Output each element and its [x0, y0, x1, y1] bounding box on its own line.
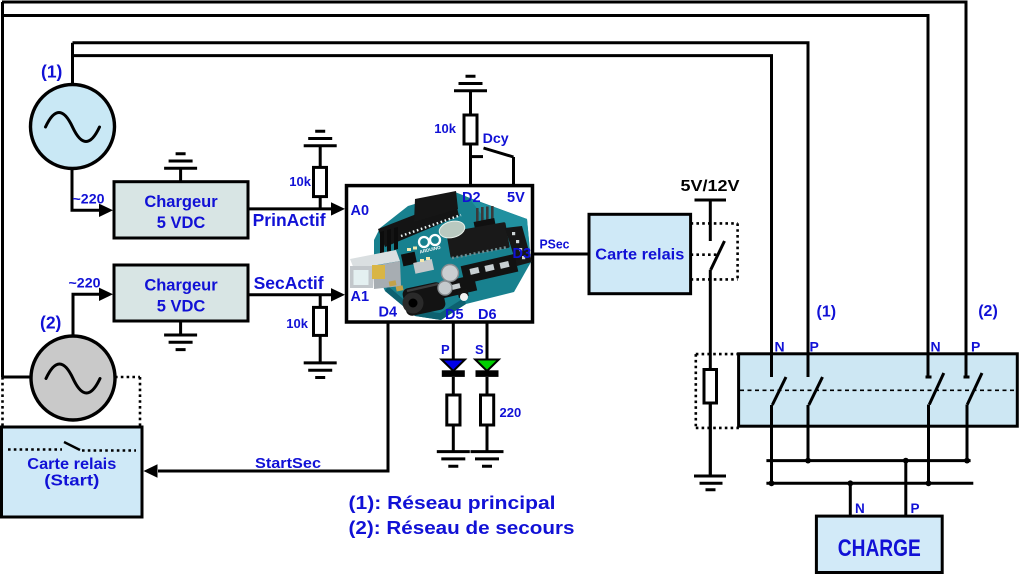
svg-text:(2): Réseau de secours: (2): Réseau de secours [349, 517, 575, 538]
svg-text:~220: ~220 [73, 191, 105, 207]
svg-text:(1): (1) [817, 304, 837, 321]
svg-text:10k: 10k [434, 121, 456, 136]
svg-text:P: P [971, 339, 980, 355]
svg-text:CHARGE: CHARGE [838, 535, 921, 562]
svg-text:Dcy: Dcy [483, 131, 510, 146]
svg-text:(2): (2) [40, 313, 61, 333]
svg-text:(1): (1) [41, 62, 62, 82]
svg-text:(Start): (Start) [44, 473, 99, 490]
svg-text:Chargeur: Chargeur [144, 193, 218, 211]
svg-text:D5: D5 [445, 307, 464, 323]
svg-text:P: P [810, 339, 819, 355]
svg-text:P: P [441, 342, 450, 357]
svg-text:Chargeur: Chargeur [144, 277, 218, 295]
svg-text:N: N [931, 339, 941, 355]
svg-text:A1: A1 [351, 289, 370, 305]
svg-text:220: 220 [500, 405, 522, 420]
svg-text:P: P [911, 501, 920, 516]
svg-text:5V: 5V [507, 190, 525, 206]
svg-text:(1): Réseau principal: (1): Réseau principal [349, 492, 556, 513]
svg-text:D6: D6 [478, 307, 497, 323]
svg-text:N: N [855, 501, 865, 516]
svg-text:D2: D2 [462, 190, 481, 206]
svg-text:PSec: PSec [540, 238, 570, 252]
svg-text:D4: D4 [379, 305, 398, 321]
svg-text:(2): (2) [978, 303, 998, 320]
svg-text:S: S [475, 342, 484, 357]
svg-text:~220: ~220 [69, 275, 101, 291]
svg-text:A0: A0 [351, 203, 370, 219]
svg-text:5 VDC: 5 VDC [157, 298, 206, 316]
svg-text:StartSec: StartSec [255, 455, 321, 472]
svg-text:10k: 10k [286, 316, 308, 331]
svg-text:D3: D3 [513, 246, 532, 262]
svg-text:5V/12V: 5V/12V [681, 178, 741, 195]
svg-text:SecActif: SecActif [254, 273, 324, 293]
svg-text:PrinActif: PrinActif [253, 210, 326, 230]
svg-text:5 VDC: 5 VDC [157, 214, 206, 232]
svg-text:Carte relais: Carte relais [27, 456, 116, 473]
svg-text:N: N [775, 339, 785, 355]
svg-text:Carte relais: Carte relais [595, 247, 684, 264]
svg-text:10k: 10k [289, 174, 311, 189]
